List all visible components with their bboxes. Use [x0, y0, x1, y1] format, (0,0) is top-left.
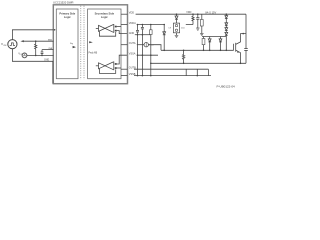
ground below C2 — [196, 27, 200, 29]
svg-text:OUTA: OUTA — [129, 42, 136, 45]
wire gate bus — [161, 49, 233, 51]
svg-text:VDD: VDD — [186, 11, 191, 14]
wire OUTA to probe — [137, 44, 144, 46]
ammeter probe circle — [144, 43, 148, 47]
secondary side logic block — [88, 9, 121, 79]
capacitor C2 VDD bypass — [197, 13, 199, 15]
capacitor C3 bulk — [201, 14, 203, 19]
svg-text:C10: C10 — [181, 27, 186, 29]
wire emitter return — [151, 62, 246, 64]
capacitor C5 — [142, 24, 144, 26]
wire VDDA stub — [121, 24, 127, 26]
wire clamp bus — [202, 36, 226, 38]
svg-text:Logic: Logic — [64, 15, 71, 19]
wire OUTA jog — [148, 45, 161, 51]
svg-text:I out: I out — [149, 44, 154, 47]
diode D2 series — [163, 24, 165, 26]
wire VCM return — [12, 49, 52, 84]
source V1 VCM — [8, 40, 17, 49]
svg-text:C9: C9 — [168, 27, 171, 29]
svg-text:INA: INA — [48, 38, 52, 41]
svg-text:UCC21520 DWR: UCC21520 DWR — [53, 0, 74, 4]
svg-text:VDD: VDD — [129, 11, 134, 14]
wire bond 3 — [185, 69, 187, 75]
transistor driver B totem bar — [113, 61, 115, 70]
wire driver A out upper — [117, 26, 121, 28]
node test point arrow INA — [20, 40, 23, 42]
diode D1 bootstrap — [176, 13, 178, 15]
wire VCM to pin — [12, 30, 53, 40]
source V2 input square wave — [22, 53, 27, 58]
svg-text:VDDA: VDDA — [129, 22, 136, 25]
capacitor C4 — [137, 24, 139, 26]
svg-text:Pwd A/B: Pwd A/B — [89, 52, 98, 55]
svg-text:INB: INB — [49, 48, 53, 50]
capacitor C7 — [150, 24, 152, 26]
wire bond 4 — [196, 69, 198, 75]
op-amp driver A buffer — [99, 25, 106, 31]
node signal arrow secondary — [89, 41, 93, 43]
op-amp U1 gate driver IC outline — [53, 5, 127, 84]
wire VSSB stub — [121, 75, 127, 77]
wire driver B out lower — [117, 67, 121, 69]
wire OUTB rail — [134, 68, 208, 70]
wire INB — [42, 49, 53, 51]
wire VDDA rail — [137, 24, 164, 26]
node pin stub dot — [54, 29, 56, 31]
svg-text:CM: CM — [3, 45, 6, 47]
wire driver B split — [105, 62, 113, 70]
wire VDD stub — [121, 13, 127, 15]
transformer T1 isolated supply module — [173, 23, 179, 33]
resistor R3 gate pulldown — [183, 50, 185, 52]
wire bond 5 — [207, 69, 209, 75]
diode D3 gate — [209, 37, 211, 39]
wire GND2 — [135, 34, 151, 36]
ground below T1 — [176, 33, 178, 36]
transistor driver A totem bar — [113, 24, 115, 33]
resistor R4 gate — [202, 39, 205, 45]
wire OUTB stub — [121, 68, 127, 70]
op-amp driver B buffer — [99, 63, 106, 69]
wire driver A out lower — [117, 31, 127, 34]
wire driver A split — [105, 25, 113, 33]
wire Q1 emitter — [236, 50, 241, 63]
svg-text:Logic: Logic — [101, 15, 108, 19]
svg-text:VA-S 15V: VA-S 15V — [205, 10, 216, 14]
svg-text:VSSA: VSSA — [129, 53, 136, 56]
svg-text:Sig: Sig — [70, 43, 73, 45]
ground below C3 — [200, 33, 204, 35]
isolation barrier dashed lines — [80, 6, 82, 80]
wire VSSA rail — [137, 54, 158, 56]
wire INA — [23, 40, 54, 42]
wire channel B input stub — [96, 65, 99, 67]
wire input rail — [27, 54, 54, 56]
svg-text:GND: GND — [129, 32, 135, 35]
svg-text:P-UB0122-04: P-UB0122-04 — [217, 84, 236, 88]
diode stack D4-D7 clamp — [226, 13, 228, 15]
diode D5 gate off — [220, 37, 222, 39]
wire driver A feedback loop — [99, 31, 115, 36]
resistor R1 — [35, 41, 37, 55]
capacitor C1 — [41, 50, 43, 52]
wire VDD rail — [136, 13, 246, 15]
transistor Q1 — [232, 44, 234, 51]
primary side logic block — [56, 9, 78, 79]
resistor R2 VDD filter — [192, 13, 194, 15]
wire driver B out upper — [117, 55, 127, 64]
wire channel A input stub — [96, 27, 99, 29]
svg-text:GND: GND — [44, 59, 49, 61]
wire driver B feedback loop — [99, 69, 115, 74]
capacitor C6 DC bus — [245, 14, 247, 48]
wire VSSB rail — [134, 75, 211, 77]
wire OUTA stub — [121, 44, 127, 46]
